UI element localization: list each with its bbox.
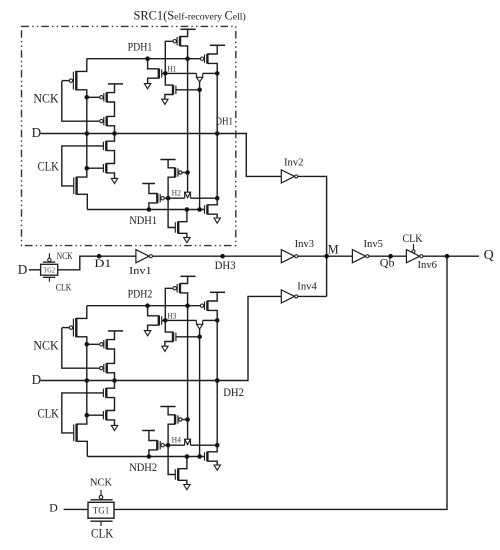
junction dot rail/N4 (145, 303, 150, 308)
node D1 junction dot (97, 254, 102, 259)
wire DH1 output line (D line of SRC1) (41, 134, 282, 177)
junction dot rail/P4 (185, 303, 190, 308)
wire DH vertical x217 (216, 73, 218, 198)
wire N3 drain up to node X (77, 168, 87, 177)
wire P6 source to VDD (168, 160, 175, 168)
transistor P1e keeper PMOS right of PDH1 (200, 54, 207, 64)
svg-text:Inv2: Inv2 (284, 158, 304, 169)
inverter Inv2 (281, 170, 298, 183)
wire P source lead to top rail (76, 59, 87, 72)
label Inv3 (295, 239, 315, 250)
node Qb junction dot (388, 254, 393, 259)
ground below N2 (111, 425, 117, 430)
TG2 NCK stem (48, 253, 50, 258)
junction dot H2 / N7 drain (215, 196, 220, 201)
label CLK above Inv6 (403, 231, 423, 245)
node H1 junction dot (163, 71, 168, 76)
wire P4-drain vertical x187 (187, 306, 189, 440)
transistor P2a big PMOS (NCK gate) of SRC2 (62, 318, 77, 337)
wire P4-drain vertical x187 (187, 59, 189, 193)
junction dot P6 gate on x187 (185, 417, 190, 422)
transistor P1g keeper PMOS left of NDH1 (157, 193, 168, 203)
ground below N6 (184, 485, 190, 490)
wire P source lead to top rail (76, 306, 87, 319)
svg-text:NDH2: NDH2 (129, 461, 157, 474)
transistor P2c stacked PMOS lower (100, 363, 107, 373)
svg-text:D: D (18, 262, 28, 277)
transistor N1g keeper NMOS right of NDH1 (205, 205, 208, 215)
wire N3 drain up to node X (77, 415, 87, 424)
wire P4 source to VDD (180, 29, 188, 36)
node X junction dot (85, 95, 90, 100)
junction dot N5 gate (197, 88, 202, 93)
wire top rail (87, 58, 200, 60)
svg-text:Inv4: Inv4 (297, 282, 317, 293)
power VDD bar above P7 (142, 430, 155, 432)
dash-dot border box of SRC1 cell (22, 26, 236, 245)
transmission gate TG1 (88, 502, 114, 518)
wire node X to P2 gate (87, 343, 100, 345)
ground below N2 (111, 178, 117, 183)
svg-text:DH2: DH2 (223, 385, 244, 399)
power VDD bar above P6 (160, 159, 175, 161)
junction dot P5 drain / H line (215, 71, 220, 76)
svg-text:NCK: NCK (90, 477, 112, 489)
wire N7 source down (207, 214, 217, 218)
wire P5 drain down (207, 310, 217, 320)
transistor P1c stacked PMOS lower (100, 116, 107, 126)
wire N5 source down (165, 342, 173, 347)
arrow tap on H3 line (197, 320, 203, 329)
transistor N2b stacked NMOS lower (87, 410, 107, 420)
svg-text:NCK: NCK (33, 338, 58, 352)
node X junction dot (85, 342, 90, 347)
label H1 (167, 65, 176, 74)
wire P5 drain down (207, 63, 217, 73)
inverter Inv1 (136, 250, 153, 263)
wire P5 source to VDD (207, 292, 217, 301)
label NCK (33, 338, 58, 352)
transistor P2e keeper PMOS right of PDH2 (200, 301, 207, 311)
svg-text:TG2: TG2 (43, 268, 55, 275)
wire DH vertical x217 (216, 320, 218, 445)
svg-text:D: D (49, 501, 58, 515)
clocked inverter Inv6 (406, 244, 423, 263)
svg-text:H3: H3 (167, 312, 176, 321)
power VDD bar above P5 (210, 44, 225, 46)
svg-text:DH1: DH1 (216, 117, 234, 128)
label H3 (167, 312, 176, 321)
TG2 PMOS bubble (48, 258, 51, 261)
transmission gate TG2 (41, 264, 58, 275)
inverter Inv5 (352, 250, 369, 263)
label DH2 (223, 385, 244, 399)
transistor P1b stacked PMOS upper (100, 92, 107, 102)
wire P7 drain to NDH2 line (149, 450, 157, 457)
junction dot P3/N1 on D line (112, 131, 117, 136)
wire P6 drain down to H4 (168, 424, 175, 445)
power VDD bar above P5 (210, 291, 225, 293)
svg-text:DH3: DH3 (215, 260, 236, 272)
wire CLK gate rail (62, 393, 104, 433)
power VDD bar above P6 (160, 406, 175, 408)
label NCK of TG2 (57, 251, 73, 261)
transistor P1a big PMOS (NCK gate) of SRC1 (62, 71, 77, 90)
transistor P1f PMOS of NDH1 (175, 168, 188, 178)
svg-text:Inv5: Inv5 (364, 239, 384, 250)
wire DH2 output line (D line of SRC2) (41, 296, 282, 380)
junction dot node X on D line (85, 378, 90, 383)
label D input of TG1 (49, 501, 58, 515)
label NDH2 (129, 461, 157, 474)
wire H3 line left segment (165, 319, 196, 321)
junction dot P7 on NDH2 line (147, 454, 152, 459)
wire N1 drain to D line (106, 381, 114, 389)
junction dot N6 on NDH2 line (185, 454, 190, 459)
svg-text:Inv1: Inv1 (129, 266, 152, 277)
label CLK of TG2 (56, 283, 72, 293)
svg-text:SRC1(Self-recovery Cell): SRC1(Self-recovery Cell) (134, 9, 246, 23)
label PDH2 (128, 289, 153, 301)
transistor N2c big NMOS (CLK gate) (74, 424, 77, 442)
TG1 bottom gate bar (90, 520, 112, 522)
svg-text:D: D (32, 125, 42, 140)
TG2 CLK stem (48, 277, 50, 281)
arrow tap on H2 line (185, 192, 191, 198)
wire N7 drain up to H4 line (207, 445, 217, 452)
node H3 junction dot (163, 318, 168, 323)
transistor P2b stacked PMOS upper (100, 339, 107, 349)
label Qb (380, 256, 395, 270)
transistor N2d keeper NMOS left of PDH2 (159, 316, 166, 326)
svg-text:Inv6: Inv6 (418, 260, 438, 271)
svg-text:CLK: CLK (403, 231, 423, 245)
svg-text:TG1: TG1 (93, 506, 110, 516)
label Inv2 (284, 158, 304, 169)
node H2 junction dot (166, 196, 171, 201)
svg-text:Inv3: Inv3 (295, 239, 315, 250)
wire H3 line right segment (203, 319, 218, 321)
wire node X vertical (86, 97, 88, 168)
wire P2 source lead to VDD (107, 84, 115, 93)
wire P4 gate down to H node (165, 288, 172, 320)
TG2 bottom gate bar (43, 276, 55, 278)
wire Inv6 to Q (423, 255, 479, 257)
ground below N4 (144, 331, 150, 336)
wire P5 source to VDD (207, 45, 217, 54)
svg-text:NCK: NCK (33, 91, 58, 105)
label D input (32, 372, 42, 387)
inverter Inv3 (281, 250, 298, 263)
wire N7 drain up to H2 line (207, 198, 217, 205)
ground below N7 (214, 465, 220, 470)
wire NCK gate rail vertical (62, 81, 100, 121)
transistor N1e NMOS below H1 (173, 85, 200, 95)
ground below N4 (144, 84, 150, 89)
wire N6 gate up to H2 (168, 198, 176, 227)
junction dot P5 drain / H line (215, 318, 220, 323)
wire Inv5 to Inv6 (369, 255, 407, 257)
transistor N1d keeper NMOS left of PDH1 (159, 69, 166, 79)
label Inv5 (364, 239, 384, 250)
label H4 (172, 435, 181, 444)
wire N1 source to N2 drain (106, 398, 114, 411)
svg-text:NCK: NCK (57, 251, 73, 261)
junction dot P6 gate on x187 (185, 170, 190, 175)
wire discharge vertical x199 (199, 329, 201, 457)
label NCK (33, 91, 58, 105)
wire P4 source to VDD (180, 276, 188, 283)
ground below N5 (162, 346, 168, 351)
power VDD bar above P2 (108, 83, 123, 85)
wire P6 drain down to H2 (168, 177, 175, 198)
junction dot DH2 (215, 378, 220, 383)
transistor N1c big NMOS (CLK gate) (74, 177, 77, 195)
svg-text:CLK: CLK (38, 159, 60, 173)
label NDH1 (129, 214, 157, 227)
arrow tap on H1 line (197, 73, 203, 82)
junction dot DH on D line (215, 378, 220, 383)
junction dot rail/N4 (145, 56, 150, 61)
wire node X vertical (86, 344, 88, 415)
wire NCK gate rail vertical (62, 328, 100, 368)
transistor N2e NMOS below H3 (173, 332, 200, 342)
label NCK of TG1 (90, 477, 112, 489)
wire N2 source down (106, 420, 114, 426)
wire Inv2 output to node M vertical (298, 176, 327, 296)
label CLK of TG1 (91, 527, 114, 541)
wire N5 drain up to H node (165, 73, 173, 85)
svg-text:H1: H1 (167, 65, 176, 74)
wire H4 line right segment (191, 444, 218, 446)
wire N4 drain up to rail (148, 59, 159, 69)
svg-text:M: M (328, 242, 339, 256)
transistor P2g keeper PMOS left of NDH2 (157, 440, 168, 450)
wire P drain lead down to node X (76, 90, 87, 98)
wire N1 source to N2 drain (106, 151, 114, 164)
transistor P2d pull-up PMOS of PDH2 (173, 283, 180, 293)
transistor N2a stacked NMOS upper (CLK gate) (103, 388, 106, 398)
wire P7 source to VDD (149, 431, 157, 441)
svg-text:H4: H4 (172, 435, 181, 444)
label CLK (38, 406, 60, 420)
wire N6 source down (178, 233, 187, 237)
ground below N7 (214, 218, 220, 223)
ground below N6 (184, 238, 190, 243)
wire N3 source to NDH2 line (77, 441, 88, 456)
wire N4 source down (148, 78, 159, 83)
svg-text:D1: D1 (94, 258, 111, 270)
label Inv1 (129, 266, 152, 277)
wire N1 drain to D line (106, 134, 114, 142)
wire N6 drain up to NDH2 line (178, 457, 187, 469)
inverter Inv4 (281, 290, 298, 303)
wire N6 source down (178, 480, 187, 484)
power VDD bar above P2 (108, 330, 123, 332)
junction dot node X on D line (85, 131, 90, 136)
transistor N1a stacked NMOS upper (CLK gate) (103, 141, 106, 151)
node DH3 junction dot (220, 254, 225, 259)
svg-text:PDH1: PDH1 (128, 42, 153, 54)
power VDD bar above P7 (142, 183, 155, 185)
label CLK (38, 159, 60, 173)
svg-text:D: D (32, 372, 42, 387)
wire H1 line right segment (203, 72, 218, 74)
wire N6 gate up to H4 (168, 445, 176, 474)
svg-text:CLK: CLK (38, 406, 60, 420)
label Inv4 (297, 282, 317, 293)
wire D to TG1 (64, 508, 88, 510)
wire P7 source to VDD (149, 184, 157, 194)
transistor N2f pull-down NMOS of NDH2 (175, 468, 178, 480)
wire H2 line right segment (191, 197, 218, 199)
svg-text:Qb: Qb (380, 256, 395, 270)
label PDH1 (128, 42, 153, 54)
wire P drain lead down to node X (76, 337, 87, 345)
svg-text:NDH1: NDH1 (129, 214, 157, 227)
TG1 NCK stem (100, 490, 102, 495)
wire discharge vertical x199 (199, 82, 201, 210)
wire P3 drain to D line (107, 126, 115, 134)
svg-text:H2: H2 (172, 188, 181, 197)
power VDD bar above P4 (180, 28, 195, 30)
svg-text:CLK: CLK (56, 283, 72, 293)
transistor N1f pull-down NMOS of NDH1 (175, 221, 178, 233)
label D input (32, 125, 42, 140)
wire P3 drain to D line (107, 373, 115, 381)
label DH1 (216, 117, 234, 128)
wire P6 source to VDD (168, 407, 175, 415)
junction dot N6 on NDH1 line (185, 207, 190, 212)
wire CLK gate rail (62, 146, 104, 186)
TG2 top gate bar (43, 261, 55, 263)
arrow tap on H4 line (185, 439, 191, 445)
node H4 junction dot (166, 443, 171, 448)
svg-text:CLK: CLK (91, 527, 114, 541)
wire N6 drain up to NDH1 line (178, 210, 187, 222)
wire N7 source down (207, 461, 217, 465)
wire NDH1 line (87, 209, 205, 211)
label Inv6 (418, 260, 438, 271)
junction dot x199 on NDH1 line (197, 207, 202, 212)
junction dot N2 gate on node X vertical (85, 166, 90, 171)
junction dot rail/P4 (185, 56, 190, 61)
wire N5 source down (165, 95, 173, 100)
label D input of TG2 (18, 262, 28, 277)
wire H1 line left segment (165, 72, 196, 74)
wire N4 drain up to rail (148, 306, 159, 316)
wire P4 gate down to H node (165, 41, 172, 73)
wire P2 drain to P3 source (107, 102, 115, 116)
transistor P1d pull-up PMOS of PDH1 (173, 36, 180, 46)
wire N3 source to NDH1 line (77, 194, 88, 209)
label Q output (484, 248, 494, 263)
ground below N5 (162, 99, 168, 104)
transistor P2f PMOS of NDH2 (175, 415, 188, 425)
wire P7 drain to NDH1 line (149, 203, 157, 210)
wire feedback from Q line down to TG1 (114, 256, 447, 509)
wire Inv3 to Inv5 (298, 255, 353, 257)
transistor N1b stacked NMOS lower (87, 163, 107, 173)
junction dot P3/N1 on D line (112, 378, 117, 383)
junction dot N5 gate (197, 335, 202, 340)
label H2 (172, 188, 181, 197)
wire P4 drain to rail (180, 293, 188, 306)
junction dot x199 on NDH2 line (197, 454, 202, 459)
transistor N2g keeper NMOS right of NDH2 (205, 452, 208, 462)
wire N5 drain up to H node (165, 320, 173, 332)
junction dot feedback on Q line (445, 254, 450, 259)
wire Inv1 to Inv3 (152, 255, 281, 257)
svg-text:PDH2: PDH2 (128, 289, 153, 301)
wire top rail (87, 305, 200, 307)
junction dot H4 / N7 drain (215, 443, 220, 448)
junction dot P7 on NDH1 line (147, 207, 152, 212)
wire Inv4 output to node M vertical (298, 295, 327, 297)
wire node X to P2 gate (87, 96, 100, 98)
wire N4 source down (148, 325, 159, 330)
TG1 top gate bar (90, 499, 112, 501)
power VDD bar above P4 (180, 275, 195, 277)
wire NDH2 line (87, 456, 205, 458)
node M junction dot (324, 254, 329, 259)
wire P2 drain to P3 source (107, 349, 115, 363)
wire P4 drain to rail (180, 46, 188, 59)
wire D to TG2 (29, 269, 41, 271)
TG1 PMOS bubble (99, 495, 103, 499)
wire TG2 output up to main line (58, 256, 136, 270)
wire N2 source down (106, 173, 114, 179)
junction dot DH on D line (215, 131, 220, 136)
title SRC1(Self-recovery Cell) (134, 9, 246, 23)
label M (328, 242, 339, 256)
wire P2 source lead to VDD (107, 331, 115, 340)
wire H2 line left segment (168, 197, 185, 199)
junction dot N2 gate on node X vertical (85, 413, 90, 418)
TG1 CLK stem (100, 521, 102, 526)
label D1 (94, 258, 111, 270)
svg-text:Q: Q (484, 248, 494, 263)
label DH3 (215, 260, 236, 272)
wire H4 line left segment (168, 444, 185, 446)
